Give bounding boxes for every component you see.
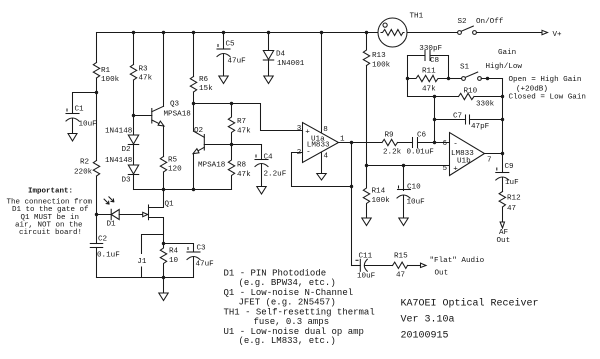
svg-text:JFET (e.g. 2N5457): JFET (e.g. 2N5457) (239, 297, 336, 307)
svg-text:100k: 100k (101, 76, 120, 84)
svg-text:10uF: 10uF (407, 198, 426, 206)
svg-text:R5: R5 (168, 157, 178, 165)
svg-text:C2: C2 (98, 236, 108, 244)
capacitor C7 (466, 115, 470, 124)
svg-text:MPSA18: MPSA18 (198, 161, 226, 169)
capacitor C4 (255, 145, 268, 187)
node C7 left (433, 118, 436, 121)
svg-text:D2: D2 (122, 146, 132, 154)
wire U1a pin4 (321, 152, 323, 174)
photodiode D1 (104, 197, 119, 220)
wire S2 to V+ terminal (477, 32, 542, 34)
svg-text:Important:: Important: (28, 188, 73, 196)
wire C1 branch (73, 93, 97, 114)
svg-text:R11: R11 (422, 68, 436, 76)
svg-text:100k: 100k (372, 61, 391, 69)
node rail-C5 (222, 31, 225, 34)
wire D2 to D3 (133, 145, 135, 166)
node rail-pin8 (320, 31, 323, 34)
svg-text:20100915: 20100915 (401, 331, 449, 342)
wire R9 to C6 (398, 142, 413, 144)
wire D1 row left (97, 214, 112, 216)
svg-text:47: 47 (507, 205, 516, 213)
svg-text:47uF: 47uF (228, 57, 247, 65)
svg-text:47k: 47k (237, 127, 251, 135)
op-amp U1b (450, 133, 485, 176)
node Q1 source R4 C3 (162, 242, 165, 245)
node rail-R3 (132, 31, 135, 34)
svg-text:330k: 330k (476, 101, 495, 109)
op-amp U1a (303, 123, 339, 163)
wire Q2 emitter (193, 153, 195, 189)
node R13-R14-pin5 (365, 164, 368, 167)
node R10 right (501, 95, 504, 98)
svg-text:8: 8 (323, 126, 328, 134)
wire C2 to bottom row (96, 248, 98, 278)
resistor R9 (382, 139, 398, 145)
resistor R13 (363, 33, 369, 66)
wire flat-audio column (351, 143, 353, 266)
svg-text:C11: C11 (359, 253, 373, 261)
capacitor C6 (413, 138, 418, 148)
svg-text:R6: R6 (199, 76, 209, 84)
node mid-R5 (162, 188, 165, 191)
resistor R1 (93, 63, 99, 79)
svg-text:120: 120 (168, 166, 182, 174)
wire R6 column (193, 33, 195, 77)
svg-text:V+: V+ (553, 31, 563, 39)
svg-text:0.1uF: 0.1uF (97, 252, 120, 260)
resistor R8 (228, 145, 234, 190)
svg-text:3: 3 (297, 125, 302, 133)
node Q3 base (132, 114, 135, 117)
svg-text:S1: S1 (460, 64, 470, 72)
svg-text:C4: C4 (264, 154, 274, 162)
resistor R2 (93, 161, 99, 177)
node R11 right (447, 77, 450, 80)
svg-text:47: 47 (396, 272, 405, 280)
svg-text:R4: R4 (169, 248, 179, 256)
wire U1a output row (339, 142, 383, 144)
node S1 out (486, 77, 489, 80)
wire Q3 collector (163, 33, 165, 107)
ground C4 (257, 187, 266, 195)
wire Q2 collector (193, 104, 195, 132)
svg-text:circuit board!: circuit board! (19, 229, 82, 237)
wire R12 to AF out (502, 207, 504, 222)
svg-text:AF: AF (499, 229, 509, 237)
svg-text:Out: Out (435, 270, 449, 278)
wire S1 to right column (481, 78, 502, 80)
svg-text:4: 4 (324, 153, 329, 161)
wire pin5 row (367, 165, 450, 167)
svg-text:R7: R7 (237, 118, 246, 126)
node R1-C1-R2 (95, 91, 98, 94)
svg-text:1N4148: 1N4148 (105, 127, 133, 135)
wire bottom ground row (97, 277, 194, 279)
capacitor C9 (496, 154, 509, 192)
svg-text:330pF: 330pF (419, 45, 442, 53)
svg-text:Closed = Low Gain: Closed = Low Gain (509, 94, 586, 102)
terminal flat audio arrow (421, 263, 427, 267)
svg-text:1: 1 (340, 135, 345, 143)
wire mid emitter row (134, 189, 232, 191)
thermal fuse TH1 (378, 18, 407, 47)
svg-text:C8: C8 (430, 57, 440, 65)
svg-text:+: + (305, 129, 310, 137)
resistor R3 (130, 65, 136, 81)
node R7 top (230, 102, 233, 105)
svg-text:(e.g. LM833, etc.): (e.g. LM833, etc.) (239, 336, 336, 346)
svg-text:R8: R8 (237, 162, 247, 170)
svg-text:R2: R2 (80, 159, 90, 167)
svg-text:Out: Out (497, 237, 511, 245)
svg-text:C7: C7 (453, 113, 462, 121)
node rail-R6 (192, 31, 195, 34)
capacitor C2 (90, 244, 102, 248)
svg-text:15k: 15k (199, 85, 213, 93)
svg-text:C3: C3 (197, 245, 207, 253)
svg-text:C9: C9 (505, 163, 515, 171)
wire C2 column (96, 215, 98, 244)
wire R2 to D1 node (96, 176, 98, 215)
transistor Q1 (143, 190, 164, 244)
wire C7 row right (470, 119, 503, 121)
node pin6 (433, 141, 436, 144)
svg-text:47k: 47k (139, 75, 153, 83)
svg-text:fuse, 0.3 amps: fuse, 0.3 amps (254, 317, 330, 327)
svg-text:KA7OEI Optical Receiver: KA7OEI Optical Receiver (401, 297, 539, 309)
wire R13 to pin5 node (366, 66, 368, 166)
svg-text:1N4001: 1N4001 (277, 60, 305, 68)
wire mid feedback column (434, 97, 436, 143)
resistor R5 (160, 157, 166, 173)
svg-text:D4: D4 (276, 51, 286, 59)
svg-text:On/Off: On/Off (476, 18, 504, 26)
ground D4 (264, 76, 273, 84)
wire ground stub (163, 278, 165, 294)
switch S1 (462, 72, 482, 80)
wire pin3 row (194, 104, 303, 131)
wire R5 to mid row (163, 172, 165, 190)
wire R3 to base node (133, 80, 135, 135)
wire D1 to Q1 gate (119, 214, 148, 216)
svg-text:C5: C5 (226, 41, 236, 49)
resistor R15 (393, 262, 408, 268)
svg-text:D3: D3 (122, 177, 132, 185)
svg-text:C10: C10 (407, 183, 421, 191)
svg-text:D1: D1 (107, 221, 117, 229)
node Q2 base R8 (230, 143, 233, 146)
capacitor C5 (217, 33, 230, 77)
svg-text:Q1: Q1 (165, 200, 175, 208)
node C7 right (501, 118, 504, 121)
ground main (159, 293, 168, 301)
svg-text:R9: R9 (385, 132, 395, 140)
svg-text:1uF: 1uF (505, 179, 519, 187)
svg-text:R10: R10 (464, 88, 478, 96)
svg-text:LM833: LM833 (307, 142, 330, 150)
svg-text:6: 6 (443, 140, 448, 148)
svg-text:U1b: U1b (457, 158, 471, 166)
wire gain network right column (448, 56, 450, 79)
ground C1 (68, 134, 77, 142)
resistor R11 (408, 75, 449, 81)
svg-text:7: 7 (487, 156, 492, 164)
ground U1a pin4 (317, 174, 326, 181)
jumper J1 wire (142, 235, 164, 278)
svg-text:R13: R13 (372, 52, 386, 60)
wire V+ top rail (97, 32, 379, 34)
wire R15 to flat out (408, 265, 421, 267)
transistor Q3 (134, 106, 165, 126)
wire U1a pin8 (321, 33, 323, 133)
svg-text:C1: C1 (75, 106, 85, 114)
svg-text:Gain: Gain (498, 49, 516, 57)
svg-text:C6: C6 (417, 132, 427, 140)
wire D3 to mid row (133, 175, 135, 190)
wire R11 to S1 (449, 78, 463, 80)
capacitor C8 (408, 51, 449, 61)
svg-text:10uF: 10uF (79, 121, 98, 129)
terminal V+ arrow (542, 30, 548, 34)
node feedback tap (350, 185, 353, 188)
svg-text:"Flat" Audio: "Flat" Audio (430, 257, 485, 265)
wire R1 to node (96, 78, 98, 161)
svg-text:R14: R14 (372, 187, 386, 195)
ground C5 (219, 76, 228, 84)
svg-text:220k: 220k (74, 169, 93, 177)
svg-text:R3: R3 (139, 66, 149, 74)
capacitor C1 (66, 109, 79, 134)
wire U1b output (485, 153, 503, 155)
resistor R14 (363, 166, 369, 219)
diode D4 (263, 33, 273, 77)
diode D2 (128, 135, 138, 145)
svg-text:TH1: TH1 (410, 13, 424, 21)
svg-text:Q2: Q2 (194, 127, 204, 135)
svg-text:2.2uF: 2.2uF (264, 171, 287, 179)
diode D3 (128, 165, 138, 175)
node rail-Q3 (162, 31, 165, 34)
svg-text:-: - (306, 149, 311, 157)
svg-text:2.2k: 2.2k (383, 149, 402, 157)
wire U1a feedback loop (292, 153, 352, 187)
svg-text:S2: S2 (458, 18, 468, 26)
wire feedback right column (502, 79, 504, 154)
resistor R12 (499, 192, 505, 208)
svg-text:Ver 3.10a: Ver 3.10a (401, 314, 455, 325)
node U1a out (350, 141, 353, 144)
capacitor C10 (397, 166, 411, 219)
ground C10 (399, 218, 408, 226)
svg-text:J1: J1 (137, 258, 147, 266)
svg-text:+: + (453, 166, 458, 174)
wire R10 row (408, 96, 459, 98)
svg-text:100k: 100k (372, 197, 391, 205)
svg-text:47k: 47k (237, 171, 251, 179)
svg-text:(+20dB): (+20dB) (516, 86, 548, 94)
terminal AF out arrow (500, 222, 504, 228)
transistor Q2 (193, 131, 261, 153)
wire gain network left column (407, 56, 409, 97)
svg-text:MPSA18: MPSA18 (164, 110, 192, 118)
node R6-R7-U1a (192, 102, 195, 105)
node C10 top (402, 164, 405, 167)
switch S2 (458, 26, 477, 34)
node rail-R13 (365, 31, 368, 34)
svg-text:47k: 47k (422, 86, 436, 94)
svg-text:47uF: 47uF (196, 261, 215, 269)
svg-text:1N4148: 1N4148 (105, 157, 133, 165)
node R10 mid-tap (433, 95, 436, 98)
svg-text:Q3: Q3 (170, 101, 180, 109)
node R11 left (406, 77, 409, 80)
wire C6 to pin6 (418, 142, 450, 144)
capacitor C11 (352, 259, 393, 271)
svg-text:0.01uF: 0.01uF (407, 149, 435, 157)
wire C7 row left (435, 119, 466, 121)
node rail-D4 (267, 31, 270, 34)
wire C3 row (164, 244, 194, 253)
ground R14 (362, 218, 371, 226)
svg-text:R1: R1 (101, 67, 111, 75)
wire R3 column (133, 33, 135, 65)
node bottom-ground (162, 276, 165, 279)
svg-text:(e.g. BPW34, etc.): (e.g. BPW34, etc.) (239, 278, 336, 288)
node mid-Q2e (192, 188, 195, 191)
svg-text:Open = High Gain: Open = High Gain (509, 76, 582, 84)
node U1b out (501, 152, 504, 155)
wire TH1 to S2 (407, 32, 458, 34)
svg-text:10: 10 (169, 257, 179, 265)
resistor R4 (160, 244, 166, 278)
wire R6 to node (193, 92, 195, 104)
svg-text:2: 2 (297, 149, 302, 157)
wire R1 column (96, 33, 98, 63)
svg-text:R15: R15 (394, 253, 408, 261)
capacitor C3 (187, 248, 200, 278)
resistor R7 (228, 104, 234, 145)
wire Q3 emitter to R5 (163, 126, 165, 157)
wire R10 right (474, 96, 503, 98)
svg-text:47pF: 47pF (471, 123, 490, 131)
svg-text:-: - (453, 141, 458, 149)
node R2-D1-C2 (95, 213, 98, 216)
svg-text:R12: R12 (507, 194, 521, 202)
resistor R6 (190, 77, 196, 93)
resistor R10 (459, 93, 475, 99)
svg-text:High/Low: High/Low (486, 63, 523, 71)
svg-text:5: 5 (443, 165, 448, 173)
svg-text:10uF: 10uF (357, 273, 376, 281)
